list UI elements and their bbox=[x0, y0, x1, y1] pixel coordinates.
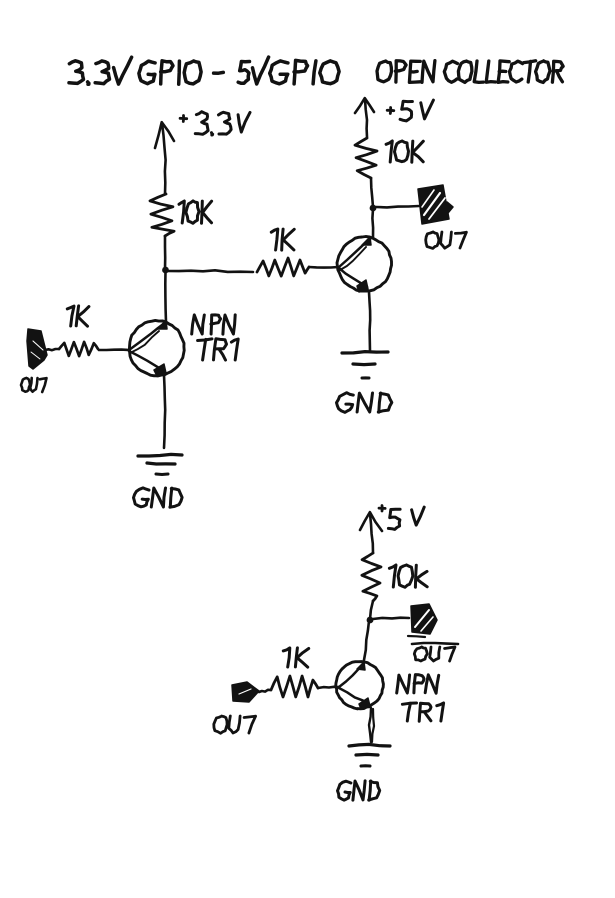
pad OUT (top right) hatched bbox=[418, 185, 453, 224]
wire resistor to node (right) bbox=[371, 178, 373, 207]
label 1K (middle) bbox=[271, 229, 294, 250]
wire 1K to base (bottom) bbox=[318, 687, 339, 688]
wire resistor to node (left rail) bbox=[164, 236, 167, 269]
wire node down to TR2 collector bbox=[371, 209, 374, 237]
label 10k (bottom) bbox=[389, 565, 427, 587]
label OUT (top right) bbox=[426, 232, 467, 248]
label 1K (bottom) bbox=[283, 648, 308, 667]
TR1b emitter arrowhead bbox=[359, 698, 370, 709]
label GND (bottom) bbox=[338, 781, 380, 800]
label +5V (top right) bbox=[387, 100, 433, 121]
TR1 collector stroke bbox=[129, 322, 166, 353]
label TR1 (bottom) bbox=[402, 703, 443, 721]
label OUT (bottom right) bbox=[414, 647, 455, 661]
label 10K (right) bbox=[386, 141, 423, 162]
TR1 collector arrowhead bbox=[158, 320, 167, 329]
TR1b collector arrowhead bbox=[357, 662, 365, 670]
node junction (right) bbox=[370, 205, 377, 212]
resistor 1K (left) body bbox=[59, 342, 98, 356]
node junction (left) bbox=[162, 267, 169, 274]
label +3.3 V bbox=[180, 112, 250, 135]
transistor TR1 (left) circle bbox=[129, 320, 184, 376]
TR1 base wire bbox=[99, 348, 129, 351]
ground (bottom) bars bbox=[349, 744, 390, 766]
power +5V arrow (bottom) bbox=[360, 512, 382, 553]
TR2 emitter wire to ground bbox=[369, 292, 370, 351]
ground (left) bars bbox=[138, 454, 182, 474]
TR1 emitter stroke bbox=[129, 351, 164, 371]
TR1 emitter wire to ground bbox=[164, 375, 165, 448]
wire node down to TR1 collector bbox=[164, 271, 167, 322]
power +5V arrow (top right) bbox=[355, 98, 374, 137]
TR2 emitter stroke bbox=[339, 268, 367, 287]
label GND (left) bbox=[134, 488, 183, 507]
wire node to pad (right) bbox=[376, 206, 419, 207]
pad /OUT (bottom right) hatched bbox=[408, 604, 437, 637]
resistor 10K (left) body bbox=[150, 194, 174, 236]
wire pad to 1K (bottom) bbox=[259, 690, 271, 692]
wire 1K to TR2 base bbox=[309, 266, 338, 269]
resistor 1K (middle) body bbox=[257, 258, 309, 276]
resistor 10K (right) body bbox=[355, 138, 377, 178]
resistor 1K (bottom) body bbox=[271, 676, 318, 697]
TR2 collector stroke bbox=[339, 238, 371, 270]
TR1b emitter wire to ground (loop) bbox=[369, 708, 374, 742]
title text '3.3V GPIO - 5V GPIO' bbox=[69, 57, 339, 84]
TR2 emitter arrowhead bbox=[357, 280, 368, 292]
wire resistor to node (bottom) bbox=[370, 601, 373, 619]
label TR1 (left) bbox=[198, 339, 239, 360]
title text 'OPEN COLLECTOR' bbox=[377, 61, 563, 83]
label NPN (left) bbox=[192, 315, 236, 334]
label /OUT overline (bottom right) bbox=[412, 643, 458, 644]
TR2 collector arrowhead bbox=[362, 237, 371, 245]
pad OUT (bottom left) filled bbox=[232, 682, 259, 702]
ground (right) bars bbox=[342, 352, 388, 378]
label 1K (left) bbox=[67, 306, 89, 326]
label 10K (left) bbox=[179, 201, 212, 223]
label +5 V (bottom) bbox=[379, 506, 424, 530]
node junction (bottom) bbox=[367, 617, 374, 624]
label OUT (bottom left) bbox=[214, 716, 256, 733]
wire node to base-network (horizontal) bbox=[167, 270, 253, 272]
label NPN (bottom) bbox=[397, 675, 439, 694]
wire node to pad (bottom) bbox=[373, 618, 409, 619]
power +3.3V arrow bbox=[155, 122, 174, 194]
TR1b collector stroke bbox=[339, 663, 364, 687]
label OUT (left) bbox=[21, 378, 47, 392]
pad OUT (left) filled bbox=[27, 329, 47, 369]
TR1b emitter stroke bbox=[339, 688, 370, 705]
wire pad to 1K (left) bbox=[45, 349, 59, 350]
TR1 emitter arrowhead bbox=[154, 364, 166, 376]
wire node down to TR collector (bottom) bbox=[364, 621, 369, 660]
transistor TR2 (right) circle bbox=[337, 237, 392, 292]
resistor 10k (bottom) body bbox=[362, 553, 381, 601]
transistor TR1 (bottom) circle bbox=[336, 662, 384, 709]
label GND (right) bbox=[337, 393, 392, 413]
